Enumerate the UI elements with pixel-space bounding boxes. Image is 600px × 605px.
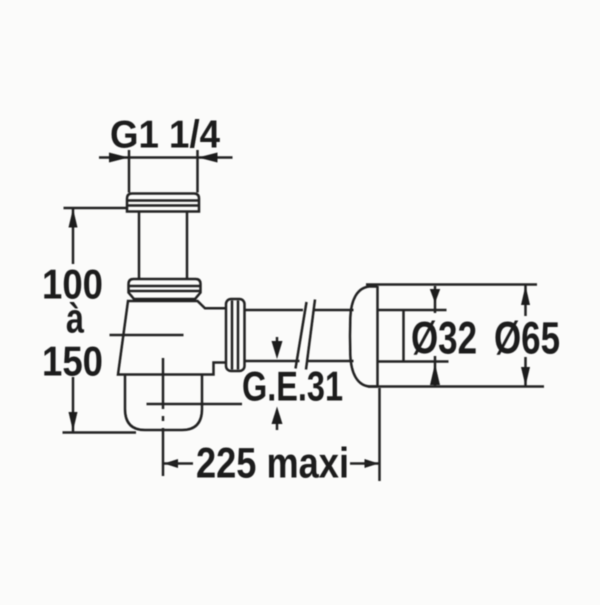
svg-text:Ø32: Ø32	[411, 313, 477, 364]
inlet pipe wall right	[186, 212, 189, 280]
outlet pipe stub right of flange with end cap	[378, 310, 449, 362]
inlet pipe wall left	[138, 212, 141, 280]
outlet pipe bottom edge	[245, 360, 354, 363]
outlet pipe top edge	[245, 309, 354, 312]
svg-text:à: à	[66, 295, 84, 342]
vertical centerline of trap	[162, 358, 165, 476]
O65 dimension arrows	[521, 285, 530, 386]
O32 dimension arrows	[430, 286, 440, 386]
outlet coupling nut	[226, 299, 245, 371]
trap body and cup outline	[118, 301, 226, 430]
G1 1/4 dimension	[99, 150, 233, 193]
pipe break mark	[296, 300, 316, 370]
svg-text:Ø65: Ø65	[494, 313, 560, 364]
trap top nut	[129, 279, 201, 299]
water seal level line	[147, 403, 243, 406]
G.E.31 dimension arrows	[272, 337, 283, 430]
svg-text:G1 1/4: G1 1/4	[110, 114, 221, 157]
svg-text:150: 150	[42, 338, 103, 385]
225 maxi dimension	[164, 388, 380, 481]
inlet flange (top cap)	[127, 194, 199, 212]
100 a 150 dimension	[63, 208, 137, 433]
wall flange bell	[350, 286, 378, 387]
outlet centerline stub inside body	[110, 334, 184, 337]
svg-text:225 maxi: 225 maxi	[196, 440, 349, 488]
O65 extension lines	[366, 285, 544, 387]
svg-text:G.E.31: G.E.31	[242, 363, 343, 410]
